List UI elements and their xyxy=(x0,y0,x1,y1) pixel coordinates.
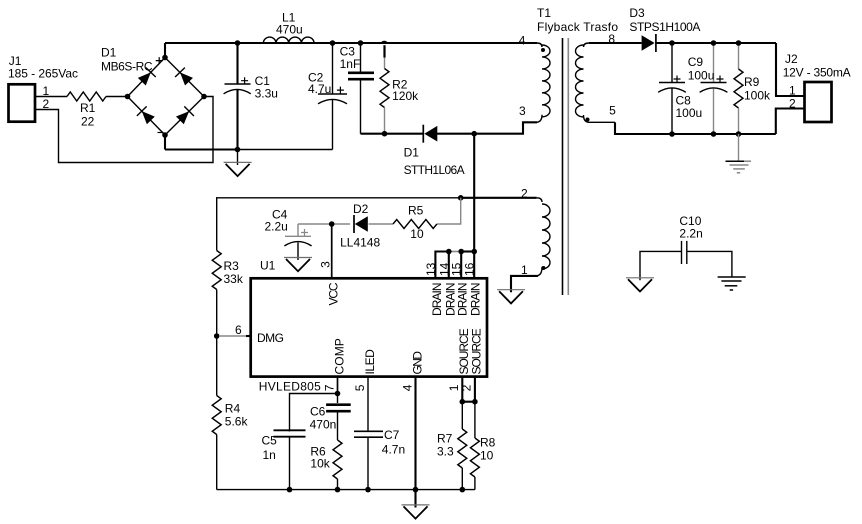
node bridge left vertex xyxy=(125,94,131,100)
wire drain pin14 stub xyxy=(448,252,450,279)
node drain pin16 xyxy=(471,249,477,255)
bridge diode top-right xyxy=(175,68,194,87)
svg-text:MB6S-RC: MB6S-RC xyxy=(101,60,153,74)
capacitor C7 xyxy=(354,428,405,490)
bridge diode bottom-left xyxy=(137,106,156,125)
node C3 top xyxy=(358,40,364,46)
bridge plus mark xyxy=(156,57,163,64)
wire T1 pin8 to D3 xyxy=(589,42,642,44)
T1 auxiliary phase dot xyxy=(541,266,545,270)
node C1 top xyxy=(235,40,241,46)
svg-text:1n: 1n xyxy=(263,448,276,462)
svg-text:16: 16 xyxy=(463,262,477,276)
ground at T1 pin1 xyxy=(497,289,525,291)
op-amp U1 HVLED805 body xyxy=(251,258,487,393)
wire gray D2 to R5 xyxy=(369,223,394,225)
wire bridge bottom vertex drop xyxy=(164,135,166,150)
node COMP xyxy=(335,391,341,397)
resistor R6 xyxy=(310,440,342,490)
svg-text:6: 6 xyxy=(235,323,242,337)
svg-text:J2: J2 xyxy=(785,52,798,66)
node C9 bottom xyxy=(711,131,717,137)
svg-text:22: 22 xyxy=(81,115,95,129)
connector J2 xyxy=(783,52,851,122)
wire aux net thick to T1 pin2 xyxy=(461,197,537,199)
earth ground under R9 xyxy=(726,161,752,173)
svg-text:5.6k: 5.6k xyxy=(225,415,249,429)
svg-text:DRAIN: DRAIN xyxy=(456,283,470,317)
wire source tie xyxy=(462,401,475,403)
node R9 bottom xyxy=(736,131,742,137)
wire ILED pin stub xyxy=(367,377,369,431)
node switch (drain) xyxy=(471,131,477,137)
capacitor C1 xyxy=(224,43,278,150)
capacitor C4 xyxy=(265,208,312,260)
svg-text:2.2n: 2.2n xyxy=(679,227,702,241)
node drain pin15 xyxy=(458,249,464,255)
wire J2 pin2 to output bottom rail xyxy=(776,109,805,135)
capacitor C2 xyxy=(308,43,347,150)
node C2 top xyxy=(330,40,336,46)
svg-text:U1: U1 xyxy=(260,258,276,272)
svg-text:12V - 350mA: 12V - 350mA xyxy=(783,65,851,79)
svg-text:1nF: 1nF xyxy=(340,57,361,71)
node C8 bottom xyxy=(669,131,675,137)
bridge minus mark xyxy=(158,132,164,134)
svg-text:33k: 33k xyxy=(224,272,244,286)
wire hop R2 over top rail xyxy=(382,42,387,44)
svg-text:R5: R5 xyxy=(408,204,424,218)
T1 secondary phase dot xyxy=(586,118,590,122)
wire C3/R2 bottom to D1 xyxy=(361,133,424,135)
resistor R5 xyxy=(393,204,437,241)
svg-text:STPS1H100A: STPS1H100A xyxy=(629,20,700,34)
node source pin1 xyxy=(460,399,466,405)
svg-text:1: 1 xyxy=(43,84,50,98)
wire D1 anode to switch node xyxy=(437,133,474,135)
wire analog ground rail xyxy=(217,489,475,491)
svg-text:120k: 120k xyxy=(392,89,419,103)
svg-text:470n: 470n xyxy=(310,417,337,431)
node DMG xyxy=(214,333,220,339)
wire drain pin16 stub xyxy=(473,252,475,279)
wire drain tie bar xyxy=(435,252,448,279)
svg-text:R3: R3 xyxy=(224,259,240,273)
svg-text:10: 10 xyxy=(480,449,494,463)
svg-text:100k: 100k xyxy=(744,89,771,103)
svg-text:D3: D3 xyxy=(629,6,645,20)
wire aux net thin R3 to R5 junction xyxy=(217,197,461,199)
svg-text:DRAIN: DRAIN xyxy=(469,283,483,316)
svg-text:T1: T1 xyxy=(537,6,551,20)
connector J1 xyxy=(8,54,78,122)
capacitor C10 xyxy=(640,214,732,280)
wire GND pin to rail xyxy=(414,377,416,490)
transformer T1 labels xyxy=(537,6,618,34)
diode bridge D1 MB6S-RC edges xyxy=(101,46,204,135)
svg-text:2: 2 xyxy=(460,384,474,391)
wire DC- bottom rail thick xyxy=(165,148,238,150)
diode D3 STPS1H100A xyxy=(629,6,700,52)
svg-text:4.7u: 4.7u xyxy=(308,82,331,96)
capacitor C5 xyxy=(262,430,306,489)
node C9 top xyxy=(711,40,717,46)
earth ground right of C10 xyxy=(718,277,746,290)
wire VCC aux gray C4 to D2 xyxy=(298,223,350,225)
T1 auxiliary winding pins 2-1 xyxy=(511,198,550,276)
resistor R9 xyxy=(734,43,771,134)
wire DC- bottom rail to C2 xyxy=(238,149,333,151)
svg-text:100u: 100u xyxy=(676,106,703,120)
svg-text:470u: 470u xyxy=(276,22,303,36)
node VCC xyxy=(329,221,335,227)
svg-text:HVLED805: HVLED805 xyxy=(259,380,321,394)
svg-text:15: 15 xyxy=(450,262,464,276)
svg-text:COMP: COMP xyxy=(332,338,346,374)
diode D1 STTH1L06A xyxy=(404,125,465,178)
ground left of C10 xyxy=(626,277,654,279)
ground at C1 xyxy=(224,150,252,177)
wire R1 to bridge left vertex xyxy=(106,96,128,98)
svg-text:2: 2 xyxy=(789,96,796,110)
svg-text:2.2u: 2.2u xyxy=(265,219,288,233)
svg-text:D1: D1 xyxy=(404,145,420,159)
svg-text:4: 4 xyxy=(400,384,414,391)
wire J1 pin2 return to bridge right vertex xyxy=(35,97,213,163)
svg-text:R8: R8 xyxy=(480,436,496,450)
diode D2 LL4148 xyxy=(340,202,380,249)
bridge diode bottom-right xyxy=(175,106,194,125)
wire aux pin1 to ground xyxy=(511,276,538,292)
svg-text:5: 5 xyxy=(353,384,367,391)
resistor R3 xyxy=(212,197,244,336)
svg-text:STTH1L06A: STTH1L06A xyxy=(404,163,465,177)
svg-text:4: 4 xyxy=(519,33,526,47)
node rail GND xyxy=(413,487,419,493)
node rail C5 xyxy=(287,487,293,493)
wire drain pin15 stub xyxy=(460,252,462,279)
svg-text:ILED: ILED xyxy=(363,349,377,375)
svg-text:VCC: VCC xyxy=(327,282,341,305)
capacitor C6 xyxy=(310,394,351,441)
svg-text:13: 13 xyxy=(424,262,438,276)
svg-text:D1: D1 xyxy=(101,46,117,60)
T1 primary phase dot xyxy=(541,48,545,52)
svg-text:R4: R4 xyxy=(225,402,241,416)
svg-text:R9: R9 xyxy=(744,75,760,89)
wire D3 cathode to output top rail xyxy=(656,42,776,44)
wire SOURCE pin1 stub xyxy=(461,377,463,402)
svg-text:DRAIN: DRAIN xyxy=(430,283,444,317)
resistor R4 xyxy=(212,336,248,490)
node rail R6 xyxy=(335,487,341,493)
node rail R7 xyxy=(460,487,466,493)
svg-text:C7: C7 xyxy=(384,428,400,442)
resistor R7 xyxy=(437,402,467,490)
wire COMP to C5 branch xyxy=(290,394,338,432)
svg-text:7: 7 xyxy=(322,384,336,391)
ground at GND pin xyxy=(402,504,430,506)
wire drain riser xyxy=(473,134,475,252)
wire SOURCE pin2 stub xyxy=(474,377,476,402)
svg-text:3.3: 3.3 xyxy=(437,445,454,459)
svg-text:1: 1 xyxy=(789,84,796,98)
bridge diode top-left xyxy=(137,68,156,87)
svg-text:3: 3 xyxy=(319,261,333,268)
wire T1 pin5 to output rail xyxy=(615,122,672,134)
svg-text:SOURCE: SOURCE xyxy=(469,328,483,374)
resistor R2 xyxy=(380,45,419,134)
wire output bottom rail xyxy=(672,133,776,135)
svg-text:GND: GND xyxy=(410,351,424,375)
svg-text:DMG: DMG xyxy=(257,331,284,345)
node R2 bottom xyxy=(382,131,388,137)
svg-text:3: 3 xyxy=(519,104,526,118)
wire GND below rail xyxy=(414,490,416,508)
wire gray R5 to aux junction xyxy=(437,198,461,224)
node C1 bottom xyxy=(235,147,241,153)
svg-text:3.3u: 3.3u xyxy=(255,86,278,100)
T1 core xyxy=(563,38,569,295)
svg-text:10k: 10k xyxy=(310,456,330,470)
node aux R5 junction xyxy=(458,195,464,201)
svg-text:185 - 265Vac: 185 - 265Vac xyxy=(8,67,78,81)
wire output rail to J2 pin1 xyxy=(776,43,805,96)
wire earth drop under R9 xyxy=(738,134,740,161)
wire COMP pin stub xyxy=(337,377,339,394)
T1 primary winding pins 4-3 xyxy=(523,43,550,122)
wire drain tie bar right xyxy=(461,250,474,252)
svg-text:4.7n: 4.7n xyxy=(382,442,405,456)
wire DMG to U1 gray xyxy=(219,335,247,337)
svg-text:LL4148: LL4148 xyxy=(340,235,380,249)
node bridge top vertex xyxy=(162,55,168,61)
svg-text:1: 1 xyxy=(521,263,528,277)
capacitor C8 xyxy=(658,43,702,134)
node bridge bottom vertex xyxy=(162,132,168,138)
svg-text:C9: C9 xyxy=(688,55,704,69)
wire bridge top vertex riser xyxy=(164,43,166,58)
wire DC+ top rail xyxy=(165,42,537,44)
node bridge right vertex xyxy=(201,94,207,100)
node rail C7 xyxy=(365,487,371,493)
node source pin2 xyxy=(472,399,478,405)
T1 secondary winding pins 8-5 xyxy=(576,43,616,122)
svg-text:R1: R1 xyxy=(80,101,96,115)
capacitor C9 xyxy=(688,43,728,134)
ground at C4 xyxy=(284,257,312,259)
svg-text:10: 10 xyxy=(410,227,424,241)
svg-text:5: 5 xyxy=(609,104,616,118)
svg-text:D2: D2 xyxy=(353,202,369,216)
svg-text:R7: R7 xyxy=(437,432,453,446)
inductor L1 xyxy=(263,11,314,43)
svg-text:100u: 100u xyxy=(688,68,715,82)
resistor R8 xyxy=(470,402,495,490)
wire DMG black stub xyxy=(246,335,251,337)
wire VCC riser to U1 pin3 xyxy=(331,224,333,278)
wire switch node to T1 pin3 xyxy=(474,122,537,133)
node C8 top xyxy=(669,40,675,46)
node R9 top xyxy=(736,40,742,46)
wire J1 pin1 to R1 xyxy=(35,96,67,98)
resistor R1 xyxy=(67,92,106,129)
node drain pin14 xyxy=(446,249,452,255)
capacitor C3 xyxy=(340,43,374,134)
svg-text:Flyback Trasfo: Flyback Trasfo xyxy=(537,20,618,34)
svg-text:C5: C5 xyxy=(262,434,278,448)
wire drain tie gray segment xyxy=(449,251,461,253)
